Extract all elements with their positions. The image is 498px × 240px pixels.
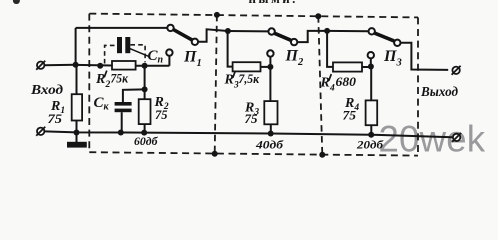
wire shunt jog — [123, 89, 145, 102]
label 20db — [356, 140, 385, 152]
wire P2 out — [297, 31, 327, 42]
wire R'2 right — [136, 65, 170, 67]
ground — [67, 142, 87, 148]
output terminal bottom — [452, 133, 461, 142]
resistor R'3 — [233, 62, 261, 71]
wire bypass section1 — [76, 27, 168, 29]
node R3 ground — [268, 131, 274, 137]
resistor R'4 — [333, 62, 362, 71]
capacitor Ck — [115, 102, 132, 112]
label P3 — [383, 48, 402, 69]
label R2 — [154, 95, 169, 112]
label R1 value — [48, 112, 63, 126]
wire throw3 lead — [370, 58, 372, 66]
svg-text:7,5к: 7,5к — [239, 72, 260, 86]
node R'3 right — [267, 64, 273, 70]
svg-text:Вход: Вход — [30, 83, 63, 98]
wire R'3 right — [261, 66, 271, 68]
wire feed R'2 — [76, 64, 112, 67]
wire P3 out — [401, 43, 449, 70]
svg-text:40дб: 40дб — [255, 140, 285, 152]
svg-text:75к: 75к — [111, 72, 129, 86]
label R1 — [50, 99, 65, 116]
svg-text:75: 75 — [48, 112, 63, 126]
wire throw2 lead — [269, 57, 271, 67]
wire R2 bottom lead — [144, 124, 146, 133]
resistor R2 — [139, 99, 151, 124]
junction dot divider2 bottom — [319, 152, 325, 158]
shield box (dashed) — [89, 14, 418, 156]
wire ground bus — [45, 131, 453, 137]
shield divider 2 — [318, 16, 322, 155]
svg-text:Выход: Выход — [420, 85, 458, 100]
wire input riser — [75, 28, 77, 65]
svg-text:75: 75 — [155, 108, 168, 122]
svg-text:680: 680 — [336, 75, 357, 89]
label R3 value — [245, 112, 258, 126]
node shunt junction 1 — [142, 86, 148, 92]
node section2 input — [225, 28, 231, 34]
svg-text:20wek: 20wek — [379, 118, 486, 159]
wire ground stub — [76, 133, 78, 143]
node R'4 right — [368, 64, 374, 70]
wire R'4 right — [362, 66, 371, 68]
wire riser2 — [228, 31, 233, 67]
switch P3 — [369, 28, 401, 46]
label R'3 value — [224, 71, 260, 90]
watermark — [379, 118, 486, 159]
switch P1 — [167, 25, 198, 45]
output terminal top — [452, 66, 461, 75]
label Vhod — [30, 83, 63, 98]
wire input top — [45, 64, 76, 66]
svg-text:R: R — [95, 72, 105, 87]
resistor R3 — [264, 101, 277, 124]
contact throw 2 — [267, 50, 273, 56]
node section3 input — [324, 28, 330, 34]
contact throw 1 — [166, 49, 172, 55]
label Ck — [94, 95, 110, 113]
label R4 value — [343, 109, 357, 123]
wire R1 bottom lead — [76, 121, 78, 133]
svg-text:60дб: 60дб — [134, 136, 159, 148]
wire R4 bottom lead — [370, 125, 372, 135]
label R2 value — [155, 108, 168, 122]
svg-text:75: 75 — [245, 112, 258, 126]
node Ck ground — [118, 130, 124, 136]
cropped caption text — [13, 0, 298, 6]
wire riser3 — [327, 31, 333, 67]
node R'2 right — [142, 63, 148, 69]
label R'2 value — [95, 71, 129, 90]
svg-text:4: 4 — [329, 84, 335, 94]
resistor R4 — [366, 100, 378, 125]
node input junction — [73, 62, 79, 68]
capacitor Cp (dashed link) — [105, 45, 146, 64]
leader line Cp label — [129, 48, 149, 56]
junction dot divider1 top — [214, 12, 220, 18]
label P2 — [285, 48, 304, 69]
shield divider 1 — [215, 15, 217, 154]
switch P2 — [268, 28, 297, 45]
wire throw1 lead — [168, 56, 170, 66]
node R1 ground — [74, 130, 80, 136]
label 40db — [255, 140, 285, 152]
wire R1 top lead — [76, 65, 78, 94]
resistor R1 — [72, 94, 82, 120]
wire R3 top lead — [269, 67, 271, 101]
contact throw 3 — [368, 52, 374, 58]
svg-text:ными.: ными. — [249, 0, 298, 6]
svg-text:75: 75 — [343, 109, 357, 123]
wire Ck bottom lead — [121, 112, 123, 132]
label R3 — [244, 101, 259, 118]
wire node drop section1 — [144, 66, 146, 90]
junction dot divider1 bottom — [212, 151, 218, 157]
wire R3 bottom lead — [270, 124, 272, 133]
junction dot divider2 top — [315, 13, 321, 19]
label Cp — [148, 48, 164, 66]
label R4 — [344, 96, 359, 113]
wire R4 top lead — [370, 67, 372, 101]
wire P1 out — [198, 29, 228, 42]
node R2 ground — [141, 130, 147, 136]
node R4 ground — [368, 132, 374, 138]
label R'4 value — [320, 74, 357, 93]
wire bypass section3 — [327, 30, 368, 32]
input terminal bottom — [36, 127, 45, 136]
label Vyhod — [420, 85, 458, 100]
input terminal top — [36, 61, 45, 70]
node R'2 left — [97, 63, 103, 69]
wire bypass section2 — [228, 30, 268, 32]
label 60db — [134, 136, 159, 148]
wire R2 top lead — [144, 89, 146, 99]
svg-text:20дб: 20дб — [356, 140, 385, 152]
label P1 — [183, 49, 202, 70]
svg-text:R: R — [224, 73, 234, 88]
resistor R'2 — [112, 61, 136, 70]
svg-text:R: R — [320, 76, 330, 91]
